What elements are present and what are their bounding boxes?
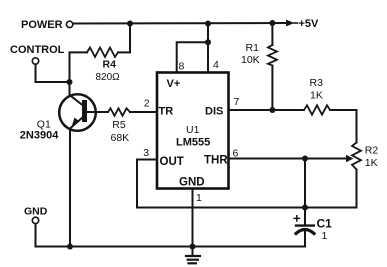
wire ground symbol stem bbox=[192, 247, 194, 256]
wire Q1 base to R5 bbox=[88, 111, 109, 113]
potentiometer R2 wiper arrowhead bbox=[346, 155, 354, 162]
svg-text:4: 4 bbox=[213, 59, 219, 71]
svg-text:2: 2 bbox=[144, 97, 150, 109]
svg-text:GND: GND bbox=[24, 205, 48, 217]
potentiometer R2 zigzag bbox=[352, 143, 361, 170]
svg-text:1K: 1K bbox=[310, 89, 323, 101]
wire pin 6 THR to R2 wiper bbox=[229, 158, 347, 160]
resistor R4 zigzag bbox=[87, 48, 118, 58]
transistor Q1 collector diagonal bbox=[70, 95, 83, 105]
node junction THR drop bbox=[302, 156, 308, 162]
wire C1 top lead bbox=[304, 208, 306, 226]
+5V arrow tail tick bbox=[294, 22, 298, 24]
terminal POWER circle bbox=[66, 21, 72, 27]
svg-text:R2: R2 bbox=[365, 144, 379, 156]
node junction top rail at R1 bbox=[269, 20, 275, 26]
svg-text:C1: C1 bbox=[317, 216, 333, 230]
wire pin 3 OUT route left-down-right to C1 node bbox=[137, 160, 305, 208]
node junction top rail at pin4 bbox=[205, 21, 211, 27]
wire CONTROL drop bbox=[36, 64, 70, 82]
svg-text:OUT: OUT bbox=[160, 156, 184, 168]
wire pin 1 GND lead bbox=[192, 189, 194, 247]
resistor R1 zigzag bbox=[268, 45, 277, 66]
capacitor C1 curved bottom plate bbox=[296, 230, 314, 234]
svg-text:10K: 10K bbox=[241, 54, 260, 66]
node junction DIS/R1/R3 bbox=[269, 107, 275, 113]
terminal CONTROL circle bbox=[32, 58, 38, 64]
svg-text:+5V: +5V bbox=[299, 18, 320, 30]
node junction control/collector bbox=[67, 79, 73, 85]
resistor R5 zigzag bbox=[108, 108, 130, 115]
wire pin 4 route to rail bbox=[207, 24, 209, 73]
transistor Q1 base bar bbox=[82, 100, 87, 122]
wire R1 bottom lead bbox=[271, 66, 273, 111]
svg-text:8: 8 bbox=[179, 60, 185, 72]
wire top +5V rail bbox=[73, 22, 287, 25]
wire GND terminal drop bbox=[35, 224, 37, 247]
wire R1 top lead bbox=[271, 23, 273, 45]
svg-text:V+: V+ bbox=[167, 78, 181, 90]
wire pin 8 route bbox=[177, 42, 208, 72]
wire R2 bottom to C1 node bbox=[305, 170, 357, 208]
node junction emitter/ground rail bbox=[67, 244, 73, 250]
wire bottom ground rail bbox=[36, 246, 306, 248]
wire C1 bottom lead to ground rail bbox=[304, 229, 306, 247]
wire R5 to pin 2 bbox=[130, 111, 157, 113]
svg-text:CONTROL: CONTROL bbox=[10, 44, 65, 56]
+5V arrowhead bbox=[286, 20, 295, 27]
resistor R3 zigzag bbox=[304, 105, 330, 114]
svg-text:U1: U1 bbox=[186, 124, 200, 136]
svg-text:TR: TR bbox=[159, 105, 174, 117]
node junction pin1/ground rail bbox=[190, 244, 196, 250]
op-amp U1 IC body LM555 bbox=[157, 73, 229, 189]
svg-text:R4: R4 bbox=[103, 58, 117, 70]
svg-text:POWER: POWER bbox=[21, 19, 63, 31]
node junction pin8/pin4 branch bbox=[205, 39, 211, 45]
transistor Q1 circle bbox=[59, 94, 96, 131]
wire pin 7 DIS to R1 node bbox=[229, 109, 273, 111]
transistor Q1 emitter arrowhead bbox=[72, 118, 80, 128]
capacitor C1 plus sign bbox=[294, 216, 299, 221]
svg-text:2N3904: 2N3904 bbox=[20, 129, 59, 141]
svg-text:3: 3 bbox=[143, 147, 149, 159]
svg-text:GND: GND bbox=[179, 177, 205, 189]
svg-text:DIS: DIS bbox=[205, 105, 223, 117]
svg-text:68K: 68K bbox=[111, 132, 130, 144]
wire DIS node to R3 bbox=[272, 109, 304, 111]
terminal GND circle bbox=[32, 217, 38, 223]
wire R4 right lead bbox=[118, 51, 130, 53]
node junction top rail at R4 bbox=[127, 21, 133, 27]
svg-text:LM555: LM555 bbox=[176, 136, 210, 148]
transistor Q1 emitter diagonal bbox=[71, 117, 83, 128]
node junction C1 top bbox=[302, 205, 308, 211]
capacitor C1 top plate bbox=[296, 224, 314, 226]
svg-text:1: 1 bbox=[322, 230, 328, 242]
wire Q1 emitter down to ground rail bbox=[69, 130, 71, 247]
svg-text:R5: R5 bbox=[112, 119, 126, 131]
svg-text:7: 7 bbox=[234, 96, 240, 108]
svg-text:6: 6 bbox=[233, 148, 239, 160]
svg-text:1K: 1K bbox=[365, 157, 378, 169]
svg-text:1: 1 bbox=[196, 192, 202, 204]
svg-text:R3: R3 bbox=[310, 77, 324, 89]
svg-text:THR: THR bbox=[204, 154, 228, 166]
wire THR node down to C1 node bbox=[304, 159, 306, 208]
svg-text:R1: R1 bbox=[246, 42, 260, 54]
wire R4 left lead and drop to Q1 collector bbox=[70, 52, 88, 95]
svg-text:820Ω: 820Ω bbox=[96, 72, 121, 83]
wire R3 to R2 top bbox=[330, 110, 357, 143]
wire R4 right vertical to rail bbox=[129, 24, 131, 53]
ground symbol bbox=[186, 256, 200, 263]
